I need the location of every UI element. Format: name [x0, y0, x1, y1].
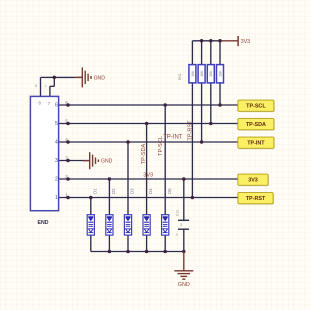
svg-text:1: 1: [65, 192, 68, 197]
svg-text:TP-SCL: TP-SCL: [246, 104, 266, 110]
svg-text:1u: 1u: [179, 223, 183, 227]
svg-text:3V3: 3V3: [143, 172, 153, 178]
svg-text:TP-RST: TP-RST: [187, 120, 193, 141]
svg-text:1u: 1u: [175, 233, 179, 237]
svg-text:10K: 10K: [209, 70, 213, 77]
svg-text:C10: C10: [176, 210, 180, 216]
svg-text:D5: D5: [167, 188, 172, 194]
svg-text:3V3: 3V3: [248, 178, 258, 184]
svg-text:10K: 10K: [218, 70, 222, 77]
svg-text:GND: GND: [101, 159, 113, 165]
svg-text:6: 6: [55, 103, 58, 109]
svg-text:5: 5: [65, 118, 68, 123]
svg-text:4: 4: [55, 140, 58, 146]
svg-text:1: 1: [55, 195, 58, 201]
svg-text:END: END: [38, 220, 49, 226]
svg-text:10K: 10K: [200, 70, 204, 77]
svg-text:D4: D4: [148, 188, 153, 194]
svg-text:TP-INT: TP-INT: [163, 134, 183, 140]
svg-text:D3: D3: [130, 188, 135, 194]
svg-text:D1: D1: [92, 188, 97, 194]
svg-text:6: 6: [65, 100, 68, 105]
svg-text:TP-SDA: TP-SDA: [141, 143, 147, 164]
svg-text:TP-SDA: TP-SDA: [246, 122, 266, 128]
svg-text:3: 3: [65, 155, 68, 160]
svg-text:7: 7: [45, 84, 47, 88]
svg-text:10K: 10K: [191, 70, 195, 77]
svg-text:2: 2: [65, 174, 68, 179]
svg-text:TP-INT: TP-INT: [247, 141, 265, 147]
svg-text:D2: D2: [111, 188, 116, 194]
svg-text:TP-RST: TP-RST: [246, 196, 266, 202]
svg-text:GND: GND: [94, 75, 106, 81]
svg-text:4: 4: [65, 137, 68, 142]
svg-text:5: 5: [55, 121, 58, 127]
svg-text:3V3: 3V3: [241, 39, 251, 45]
svg-text:8: 8: [35, 84, 37, 88]
svg-text:2: 2: [55, 177, 58, 183]
svg-text:3: 3: [55, 158, 58, 164]
svg-text:GND: GND: [178, 282, 190, 288]
svg-text:RN1: RN1: [178, 73, 182, 80]
